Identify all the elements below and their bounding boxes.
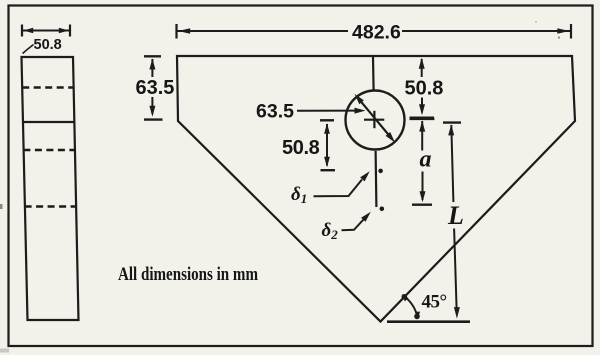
side-view bar dashed line 3: [25, 205, 77, 207]
side-view bar dashed line 1: [22, 86, 73, 88]
scan smudge bottom-left: [0, 349, 9, 353]
dimension a line: [410, 119, 435, 205]
baseline at V tip: [387, 320, 470, 323]
svg-text:L: L: [447, 201, 464, 230]
svg-text:δ2: δ2: [322, 220, 339, 242]
scan speck: [558, 36, 560, 38]
side-view bar solid divider line: [23, 121, 75, 123]
svg-text:All dimensions in mm: All dimensions in mm: [118, 265, 258, 285]
side-view bar dashed line 2: [23, 149, 75, 151]
svg-text:50.8: 50.8: [34, 37, 62, 53]
svg-text:a: a: [420, 147, 432, 173]
dimension 50.8 (hole center down): [320, 120, 335, 170]
centerline below hole: [375, 151, 378, 207]
svg-text:45°: 45°: [422, 292, 447, 313]
scan speck: [535, 21, 537, 23]
leader arrow delta1: [314, 171, 370, 196]
measurement dot delta1: [378, 169, 383, 174]
hole circle: [346, 91, 405, 150]
dimension 50.8 (top edge to hole center): [410, 58, 435, 118]
svg-text:δ1: δ1: [291, 184, 307, 206]
leader arrow delta2: [342, 212, 371, 231]
dimension 50.8 (bar width) line with end ticks and arrows: [22, 25, 70, 37]
scan speck left edge: [0, 204, 3, 209]
svg-text:63.5: 63.5: [136, 77, 175, 99]
leader stroke under 50.8 label: [23, 45, 34, 54]
dimension L line: [443, 123, 461, 319]
specimen plate outline: [177, 56, 575, 322]
centerline above hole: [372, 57, 375, 90]
svg-text:63.5: 63.5: [256, 101, 294, 123]
svg-text:50.8: 50.8: [282, 137, 320, 159]
hole diameter double-headed arrow: [355, 94, 395, 142]
dimension 482.6 line with end ticks and arrows: [177, 24, 572, 39]
45 degree angle arc: [402, 294, 421, 319]
side-view bar outline: [22, 57, 79, 320]
svg-text:482.6: 482.6: [352, 22, 401, 44]
dimension 63.5 (top edge depth): [144, 56, 163, 119]
svg-text:50.8: 50.8: [405, 78, 444, 100]
leader arrow from 63.5 to hole: [297, 108, 366, 114]
hole center cross: [364, 111, 384, 128]
measurement dot delta2: [380, 207, 385, 212]
